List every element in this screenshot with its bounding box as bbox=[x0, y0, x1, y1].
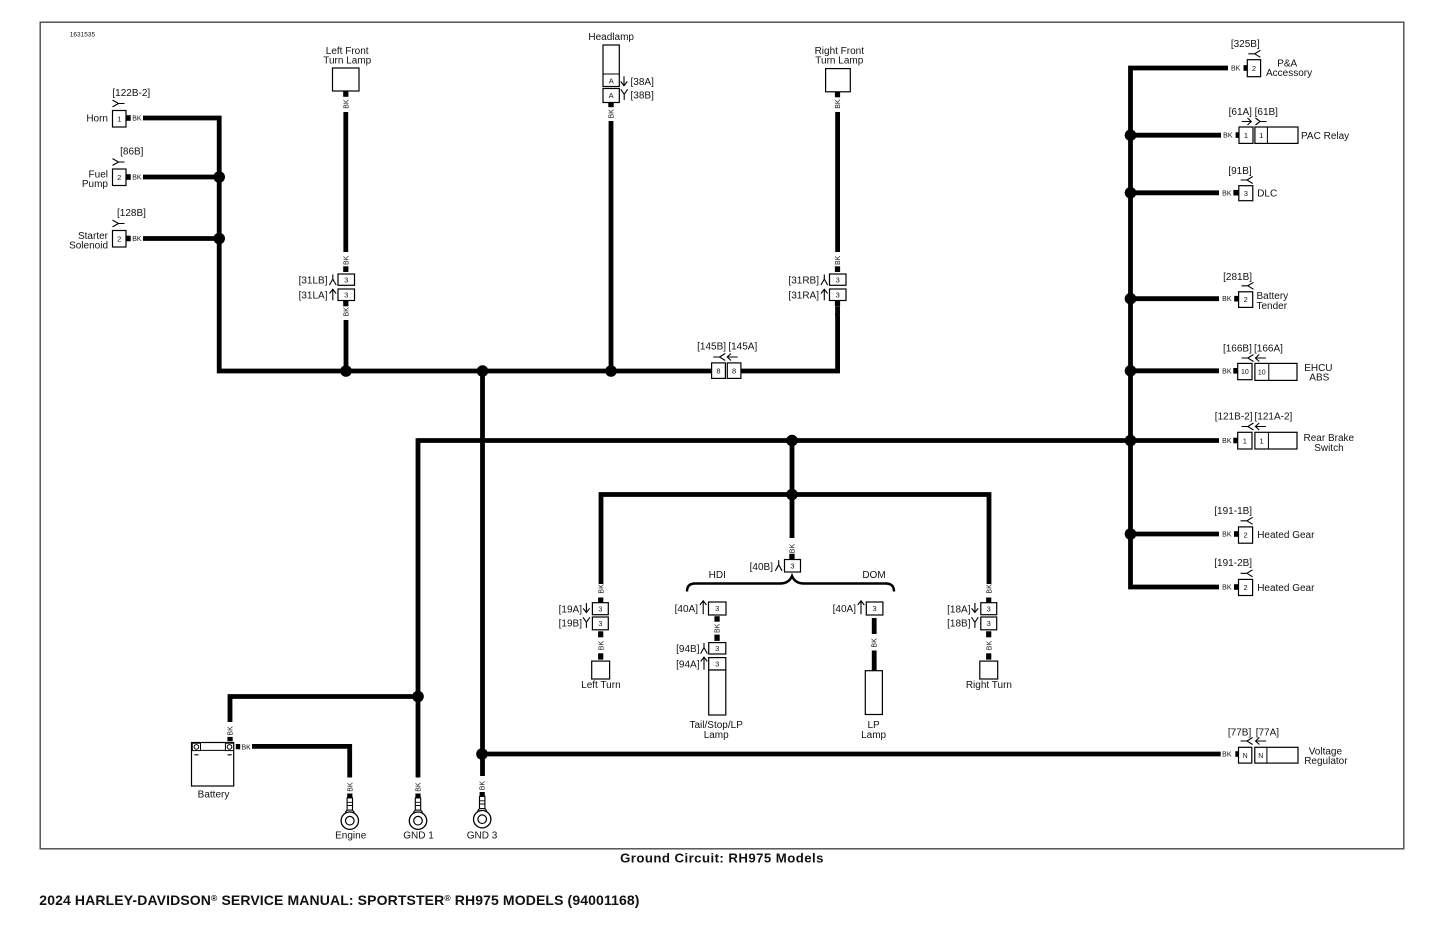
svg-text:[61B]: [61B] bbox=[1255, 107, 1279, 118]
svg-text:BK: BK bbox=[132, 116, 142, 123]
svg-text:3: 3 bbox=[598, 619, 602, 628]
svg-text:DLC: DLC bbox=[1257, 189, 1277, 200]
svg-text:Regulator: Regulator bbox=[1304, 756, 1348, 767]
svg-text:[281B]: [281B] bbox=[1223, 272, 1252, 283]
svg-text:BK: BK bbox=[343, 99, 350, 109]
svg-text:3: 3 bbox=[598, 604, 602, 613]
svg-text:BK: BK bbox=[228, 726, 235, 736]
svg-text:3: 3 bbox=[836, 275, 840, 284]
svg-text:[166B]: [166B] bbox=[1223, 344, 1252, 355]
svg-text:Turn Lamp: Turn Lamp bbox=[323, 55, 371, 66]
svg-text:BK: BK bbox=[835, 307, 842, 317]
svg-text:3: 3 bbox=[1244, 189, 1248, 198]
svg-text:1: 1 bbox=[1259, 131, 1263, 140]
svg-text:BK: BK bbox=[599, 584, 606, 594]
svg-text:[91B]: [91B] bbox=[1228, 166, 1252, 177]
svg-text:BK: BK bbox=[715, 623, 722, 633]
svg-text:BK: BK bbox=[343, 307, 350, 317]
svg-text:BK: BK bbox=[132, 175, 142, 182]
svg-text:[166A]: [166A] bbox=[1254, 344, 1283, 355]
svg-text:3: 3 bbox=[987, 619, 991, 628]
svg-text:Left Turn: Left Turn bbox=[581, 680, 620, 691]
svg-text:[122B-2]: [122B-2] bbox=[112, 88, 150, 99]
svg-text:BK: BK bbox=[242, 744, 252, 751]
svg-text:Accessory: Accessory bbox=[1266, 68, 1312, 79]
svg-text:BK: BK bbox=[347, 782, 354, 792]
svg-text:[191-1B]: [191-1B] bbox=[1214, 506, 1252, 517]
svg-text:1: 1 bbox=[1243, 436, 1247, 445]
svg-text:[31LA]: [31LA] bbox=[299, 290, 328, 301]
svg-text:PAC Relay: PAC Relay bbox=[1301, 131, 1349, 142]
svg-text:BK: BK bbox=[416, 782, 423, 792]
svg-text:[38B]: [38B] bbox=[631, 91, 655, 102]
svg-text:Solenoid: Solenoid bbox=[69, 240, 108, 251]
svg-text:1: 1 bbox=[1244, 131, 1248, 140]
svg-text:2: 2 bbox=[1252, 64, 1256, 73]
svg-text:1631535: 1631535 bbox=[70, 31, 96, 38]
svg-text:BK: BK bbox=[835, 99, 842, 109]
svg-text:3: 3 bbox=[987, 604, 991, 613]
svg-text:[40A]: [40A] bbox=[833, 604, 857, 615]
svg-text:BK: BK bbox=[343, 255, 350, 265]
svg-text:8: 8 bbox=[732, 366, 736, 375]
svg-text:[40A]: [40A] bbox=[675, 604, 699, 615]
svg-text:2: 2 bbox=[117, 173, 121, 182]
svg-text:[77B]: [77B] bbox=[1228, 727, 1252, 738]
svg-text:[40B]: [40B] bbox=[750, 562, 774, 573]
svg-text:ABS: ABS bbox=[1309, 373, 1329, 384]
svg-text:BK: BK bbox=[872, 638, 879, 648]
svg-text:BK: BK bbox=[1222, 190, 1232, 197]
svg-text:Lamp: Lamp bbox=[861, 730, 886, 741]
svg-text:BK: BK bbox=[1222, 752, 1232, 759]
svg-text:BK: BK bbox=[987, 641, 994, 651]
svg-text:[19A]: [19A] bbox=[559, 605, 583, 616]
svg-text:BK: BK bbox=[1222, 585, 1232, 592]
svg-text:2: 2 bbox=[117, 234, 121, 243]
svg-text:Turn Lamp: Turn Lamp bbox=[815, 55, 863, 66]
svg-text:3: 3 bbox=[873, 604, 877, 613]
svg-text:2024 HARLEY-DAVIDSON® SERVICE: 2024 HARLEY-DAVIDSON® SERVICE MANUAL: SP… bbox=[39, 892, 639, 908]
svg-text:[31RB]: [31RB] bbox=[788, 275, 819, 286]
svg-text:3: 3 bbox=[344, 275, 348, 284]
svg-text:BK: BK bbox=[599, 641, 606, 651]
svg-text:Engine: Engine bbox=[335, 830, 367, 841]
svg-text:Right Turn: Right Turn bbox=[966, 680, 1012, 691]
svg-text:GND 3: GND 3 bbox=[467, 830, 498, 841]
svg-text:[86B]: [86B] bbox=[120, 146, 144, 157]
svg-text:Pump: Pump bbox=[82, 179, 109, 190]
svg-text:[38A]: [38A] bbox=[631, 77, 655, 88]
svg-text:1: 1 bbox=[1260, 437, 1264, 446]
svg-text:1: 1 bbox=[117, 114, 121, 123]
svg-text:Heated Gear: Heated Gear bbox=[1257, 530, 1315, 541]
svg-text:BK: BK bbox=[1231, 66, 1241, 73]
svg-text:BK: BK bbox=[1222, 532, 1232, 539]
svg-text:3: 3 bbox=[790, 561, 794, 570]
svg-text:2: 2 bbox=[1243, 583, 1247, 592]
svg-text:Battery: Battery bbox=[198, 790, 230, 801]
svg-text:Switch: Switch bbox=[1314, 443, 1343, 454]
svg-text:3: 3 bbox=[344, 290, 348, 299]
svg-text:BK: BK bbox=[987, 584, 994, 594]
svg-text:[325B]: [325B] bbox=[1231, 39, 1260, 50]
svg-text:N: N bbox=[1243, 753, 1248, 760]
svg-text:BK: BK bbox=[835, 255, 842, 265]
svg-text:BK: BK bbox=[790, 544, 797, 554]
svg-text:[121B-2]: [121B-2] bbox=[1215, 412, 1253, 423]
svg-text:Lamp: Lamp bbox=[704, 730, 729, 741]
svg-text:BK: BK bbox=[609, 109, 616, 119]
svg-text:3: 3 bbox=[715, 659, 719, 668]
svg-text:A: A bbox=[609, 76, 614, 85]
svg-text:[94B]: [94B] bbox=[676, 644, 700, 655]
svg-text:[18A]: [18A] bbox=[947, 605, 971, 616]
svg-text:Heated Gear: Heated Gear bbox=[1257, 583, 1315, 594]
svg-text:3: 3 bbox=[715, 644, 719, 653]
svg-text:[191-2B]: [191-2B] bbox=[1214, 558, 1252, 569]
svg-text:[19B]: [19B] bbox=[559, 619, 583, 630]
svg-text:HDI: HDI bbox=[709, 570, 726, 581]
svg-text:DOM: DOM bbox=[862, 570, 885, 581]
svg-text:N: N bbox=[1258, 753, 1263, 760]
svg-text:Ground Circuit: RH975 Models: Ground Circuit: RH975 Models bbox=[620, 850, 824, 865]
svg-text:2: 2 bbox=[1244, 295, 1248, 304]
svg-text:2: 2 bbox=[1243, 531, 1247, 540]
svg-text:BK: BK bbox=[132, 236, 142, 243]
svg-text:A: A bbox=[609, 91, 614, 100]
svg-text:GND 1: GND 1 bbox=[403, 830, 434, 841]
svg-text:BK: BK bbox=[1222, 438, 1232, 445]
svg-text:Headlamp: Headlamp bbox=[588, 32, 634, 43]
svg-text:[128B]: [128B] bbox=[117, 208, 146, 219]
svg-text:BK: BK bbox=[480, 781, 487, 791]
svg-text:10: 10 bbox=[1241, 369, 1249, 376]
svg-text:[145B]: [145B] bbox=[697, 342, 726, 353]
svg-text:Horn: Horn bbox=[86, 114, 108, 125]
svg-text:[31LB]: [31LB] bbox=[299, 275, 328, 286]
svg-text:BK: BK bbox=[1222, 368, 1232, 375]
svg-text:10: 10 bbox=[1258, 370, 1266, 377]
svg-text:BK: BK bbox=[1223, 133, 1233, 140]
svg-text:3: 3 bbox=[715, 604, 719, 613]
svg-text:[121A-2]: [121A-2] bbox=[1254, 412, 1292, 423]
svg-text:[31RA]: [31RA] bbox=[788, 290, 819, 301]
svg-text:[145A]: [145A] bbox=[728, 342, 757, 353]
svg-text:8: 8 bbox=[716, 366, 720, 375]
svg-text:Tender: Tender bbox=[1257, 301, 1288, 312]
svg-text:[61A]: [61A] bbox=[1229, 107, 1253, 118]
svg-text:[94A]: [94A] bbox=[676, 659, 700, 670]
svg-text:3: 3 bbox=[836, 290, 840, 299]
svg-text:[77A]: [77A] bbox=[1256, 727, 1280, 738]
svg-text:BK: BK bbox=[1222, 296, 1232, 303]
svg-text:[18B]: [18B] bbox=[947, 619, 971, 630]
